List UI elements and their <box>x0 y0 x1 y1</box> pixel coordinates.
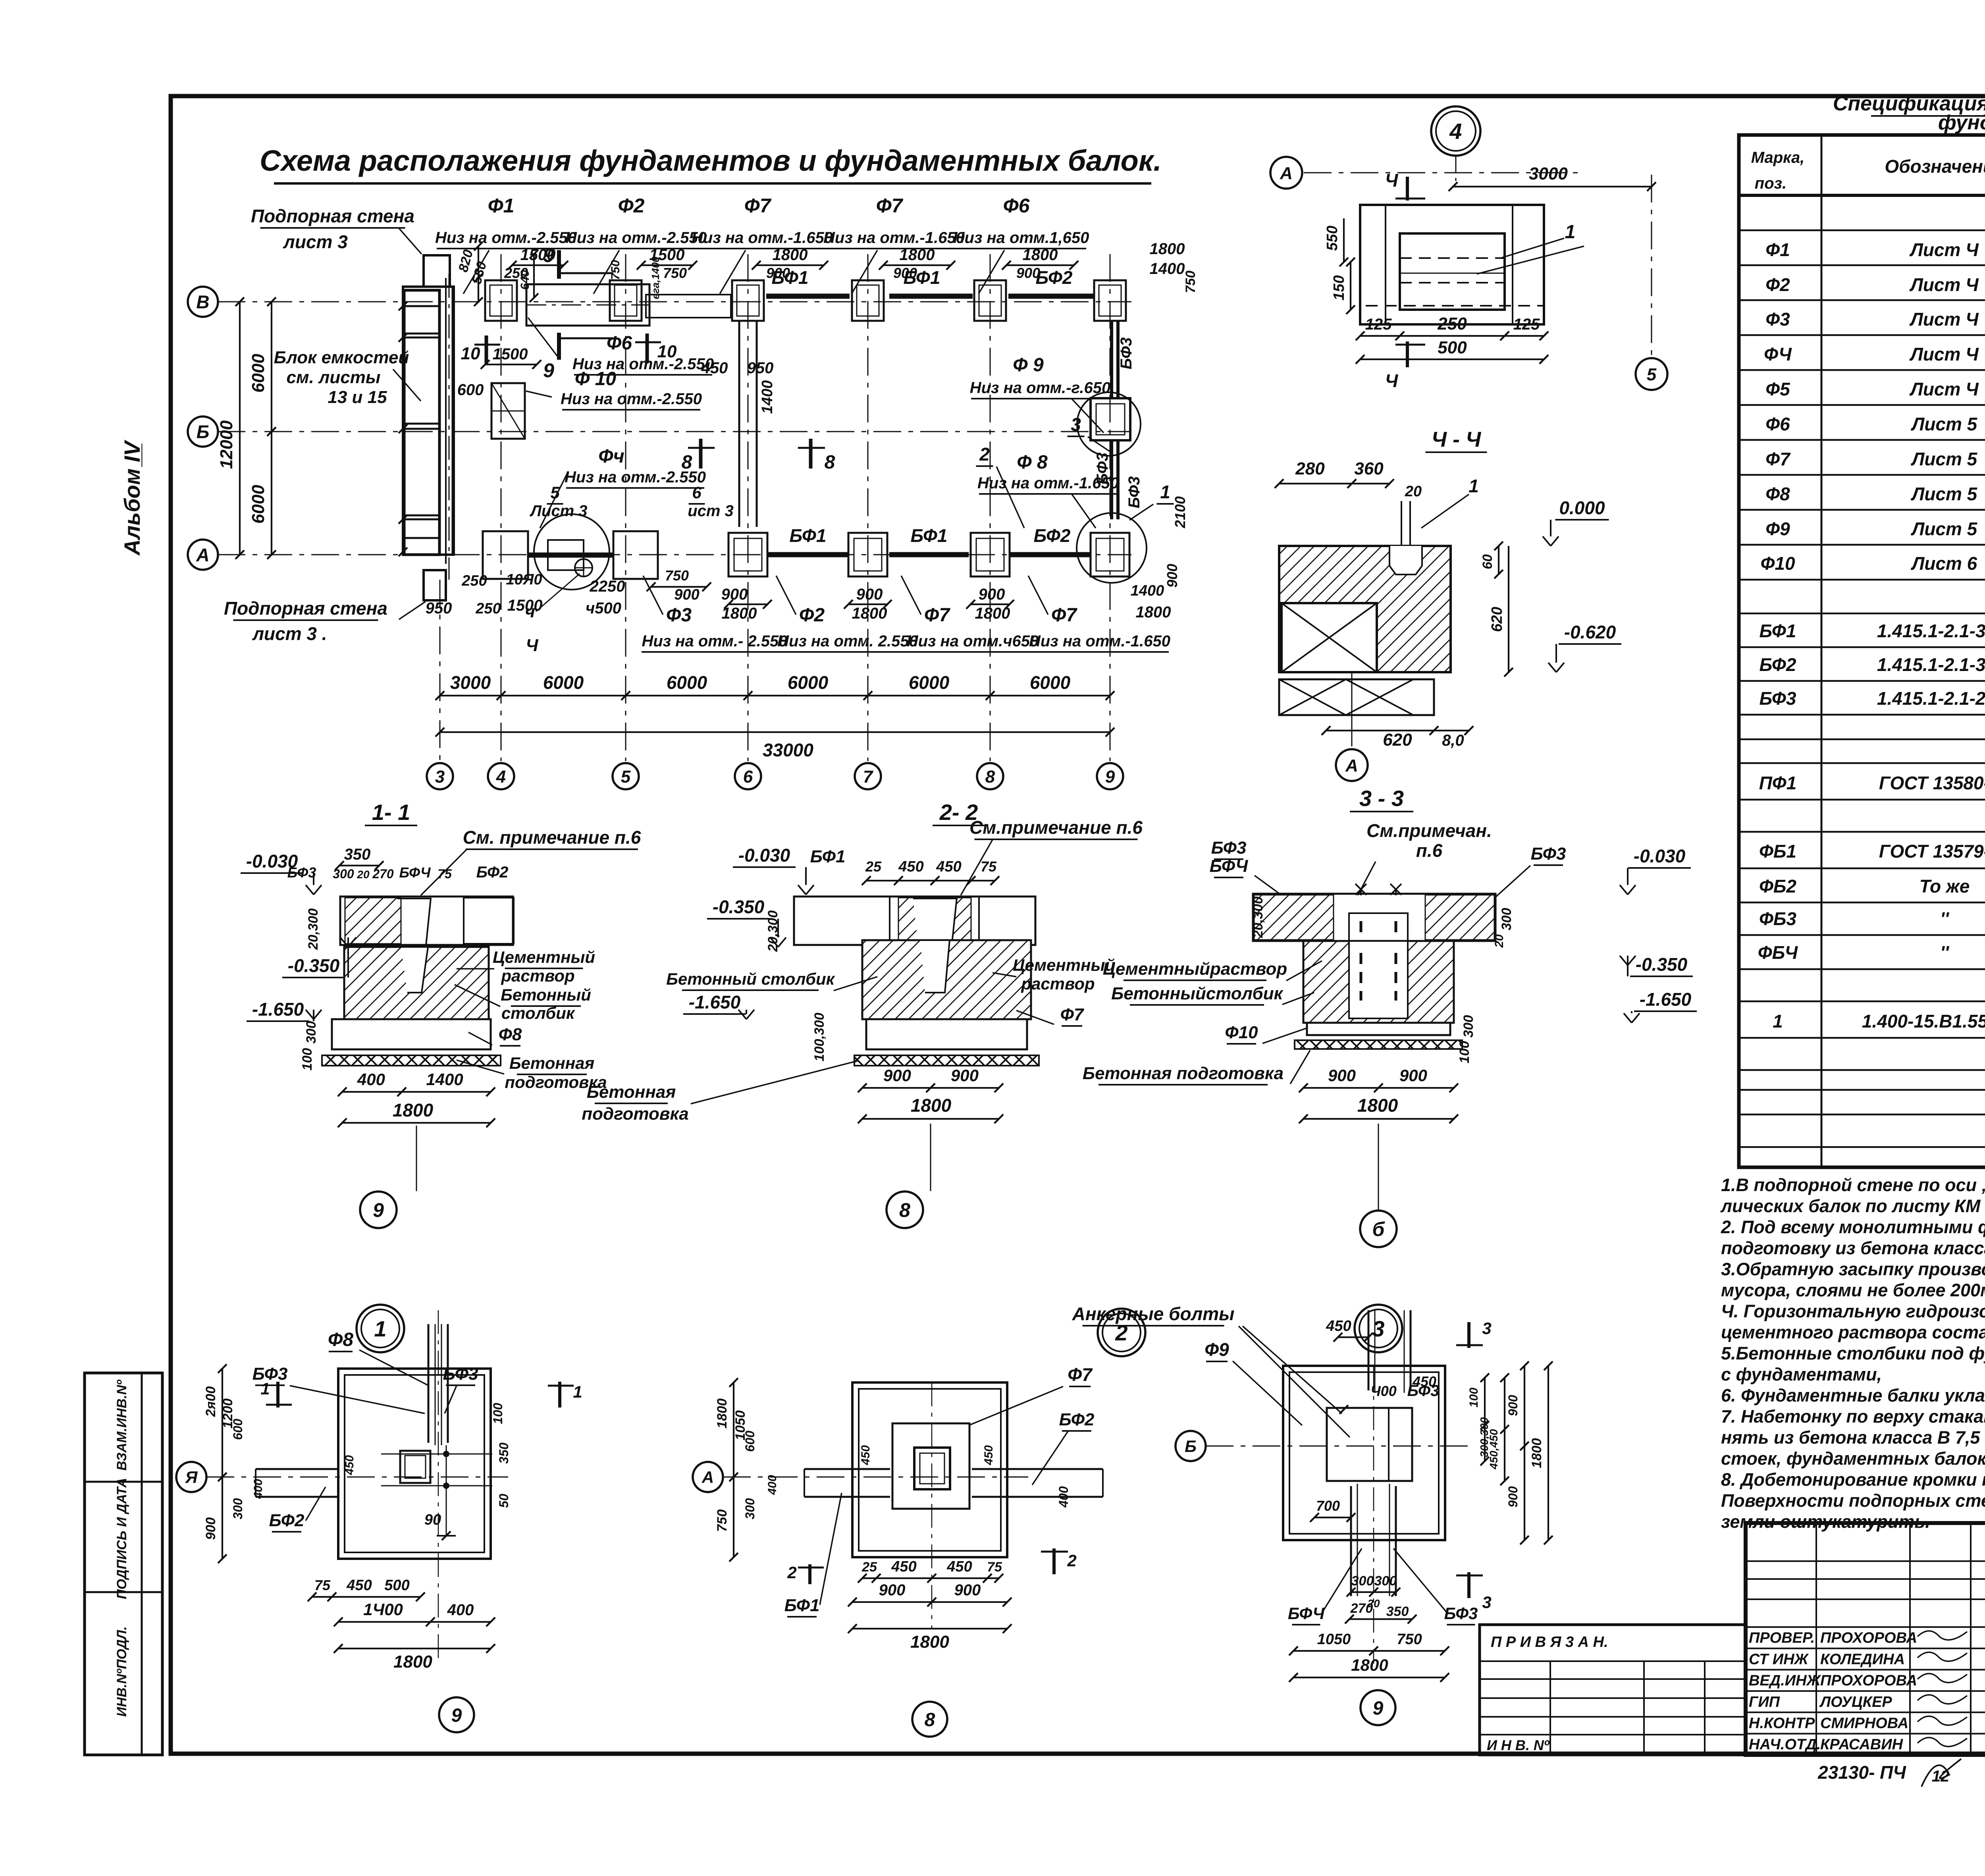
detail4 dim 150 <box>1350 262 1351 310</box>
svg-text:1800: 1800 <box>1357 1095 1398 1116</box>
section 3-3 grid circle 6 <box>1360 1211 1397 1247</box>
svg-text:10: 10 <box>461 344 480 363</box>
svg-text:1400: 1400 <box>1131 582 1164 599</box>
svg-text:ега,1400: ега,1400 <box>649 256 661 299</box>
svg-text:270: 270 <box>372 867 394 881</box>
plan bottom dim row 33000 <box>440 731 1110 733</box>
svg-text:1800: 1800 <box>1136 603 1171 621</box>
svg-text:Цементный: Цементный <box>1013 956 1115 974</box>
svg-text:Бетонная: Бетонная <box>587 1082 676 1102</box>
svg-text:20,300: 20,300 <box>1251 897 1266 938</box>
svg-text:6: 6 <box>692 483 701 502</box>
svg-text:100: 100 <box>491 1403 505 1424</box>
svg-text:ист 3: ист 3 <box>688 502 734 520</box>
svg-text:-0.030: -0.030 <box>246 851 298 871</box>
detail9R outer square <box>1283 1366 1445 1540</box>
svg-text:Ф7: Ф7 <box>744 195 772 217</box>
svg-text:1400: 1400 <box>759 380 776 414</box>
detail9R section marker 3 bottom <box>1467 1572 1470 1598</box>
svg-text:БФ3: БФ3 <box>252 1364 288 1384</box>
svg-text:ПОДПИСЬ И ДАТА: ПОДПИСЬ И ДАТА <box>114 1478 129 1599</box>
big node circle grid9 axis B <box>1077 392 1141 456</box>
svg-text:Низ на отм.-г.650: Низ на отм.-г.650 <box>970 379 1111 397</box>
svg-text:Низ на отм.-2.550: Низ на отм.-2.550 <box>561 390 702 408</box>
svg-text:3: 3 <box>1482 1319 1491 1338</box>
svg-text:Ч: Ч <box>1385 370 1399 391</box>
grid circle 6 <box>735 763 761 789</box>
grid circle 5 <box>613 763 639 789</box>
section 1-1 dims below <box>342 1091 491 1093</box>
svg-text:БФ3: БФ3 <box>1407 1382 1440 1400</box>
svg-text:900: 900 <box>721 586 748 603</box>
svg-text:А: А <box>1345 756 1358 775</box>
svg-text:750: 750 <box>609 260 622 280</box>
svg-text:БФ3: БФ3 <box>1118 337 1135 370</box>
svg-text:ГИП: ГИП <box>1749 1694 1780 1710</box>
svg-text:Обозначение: Обозначение <box>1885 156 1985 177</box>
node circle 3 <box>1355 1305 1402 1352</box>
detail9R axis circle B <box>1176 1431 1206 1461</box>
svg-text:1: 1 <box>1773 1011 1783 1032</box>
svg-text:100: 100 <box>1457 1041 1472 1064</box>
svg-text:250: 250 <box>461 573 487 589</box>
section marker 10 left <box>485 335 488 365</box>
section 3-3 foundation <box>1303 941 1454 1023</box>
svg-text:400: 400 <box>357 1070 385 1089</box>
svg-text:Лист 6: Лист 6 <box>1911 553 1977 574</box>
foundation bottom row at grid x=1884 <box>728 533 767 576</box>
svg-text:900: 900 <box>1328 1066 1356 1085</box>
svg-text:1500: 1500 <box>507 597 543 614</box>
svg-text:4: 4 <box>496 767 506 787</box>
svg-text:Ф7: Ф7 <box>1765 449 1791 469</box>
top row monolithic strip 5-6 <box>646 295 731 318</box>
svg-text:3: 3 <box>1071 414 1081 435</box>
svg-text:1800: 1800 <box>910 1632 949 1652</box>
svg-text:8: 8 <box>825 452 835 473</box>
section marker 9 upper <box>557 250 561 279</box>
svg-text:лических балок по листу КМ 5.: лических балок по листу КМ 5. <box>1720 1196 1985 1216</box>
section 4-4 leader 1 <box>1421 494 1469 528</box>
big node circle right <box>1077 513 1147 583</box>
svg-text:Ф7: Ф7 <box>1068 1364 1093 1385</box>
svg-text:50: 50 <box>497 1494 511 1508</box>
svg-text:900: 900 <box>1016 265 1040 281</box>
svg-text:с фундаментами,: с фундаментами, <box>1721 1364 1882 1384</box>
svg-text:СТ ИНЖ: СТ ИНЖ <box>1749 1651 1809 1668</box>
beam BF2 top 8-9 <box>1008 294 1095 299</box>
detail9L inner square <box>400 1451 430 1483</box>
retaining wall bottom square <box>424 570 446 600</box>
detail4 node4 axis drop <box>1455 156 1457 187</box>
section 4-4 axis drop <box>1351 672 1353 746</box>
svg-text:ФЧ: ФЧ <box>1764 344 1792 364</box>
section 2-2 axis drop <box>930 1124 931 1191</box>
svg-text:Лист 5: Лист 5 <box>1911 414 1978 434</box>
svg-text:Низ на отм.1,650: Низ на отм.1,650 <box>953 229 1089 247</box>
detail4 axis line <box>1304 172 1584 174</box>
svg-text:20: 20 <box>357 868 370 881</box>
section 4-4 axis circle A <box>1336 749 1368 781</box>
detail8 left dim chain <box>733 1382 734 1557</box>
svg-text:450: 450 <box>859 1445 872 1465</box>
svg-text:Ч: Ч <box>526 636 538 655</box>
detail9R grid circle 9 <box>1361 1690 1395 1725</box>
svg-text:20: 20 <box>1405 483 1422 500</box>
detail9R section marker 3 top <box>1467 1322 1470 1348</box>
svg-text:Ф10: Ф10 <box>1225 1023 1258 1042</box>
svg-text:Ф2: Ф2 <box>618 195 645 217</box>
svg-text:5: 5 <box>621 767 631 787</box>
svg-text:900: 900 <box>883 1066 911 1085</box>
section 1-1 grid circle 9 <box>360 1192 397 1228</box>
svg-text:20,300: 20,300 <box>765 910 781 952</box>
svg-text:Блок емкостей: Блок емкостей <box>274 348 409 367</box>
detail8 dims below <box>862 1577 999 1579</box>
svg-text:Ф 10: Ф 10 <box>575 368 617 389</box>
svg-text:П Р И В Я 3 А Н.: П Р И В Я 3 А Н. <box>1491 1634 1608 1650</box>
svg-text:1800: 1800 <box>715 1398 730 1429</box>
svg-text:Бетонныйстолбик: Бетонныйстолбик <box>1111 984 1284 1003</box>
svg-text:БФ2: БФ2 <box>1036 267 1073 288</box>
svg-text:900: 900 <box>1506 1395 1520 1416</box>
svg-text:450: 450 <box>936 858 961 875</box>
svg-text:БФ3: БФ3 <box>443 1364 478 1384</box>
svg-text:750: 750 <box>663 265 687 281</box>
svg-text:1.415.1-2.1-3-62: 1.415.1-2.1-3-62 <box>1877 654 1985 675</box>
svg-text:1.415.1-2.1-3-51: 1.415.1-2.1-3-51 <box>1877 621 1985 641</box>
svg-text:ФБ3: ФБ3 <box>1759 908 1796 929</box>
BF3 vertical beam at grid9 upper <box>1110 321 1113 398</box>
svg-text:6: 6 <box>743 767 753 787</box>
svg-text:6000: 6000 <box>667 672 707 693</box>
grid line 9 <box>1110 254 1111 761</box>
svg-text:450,450: 450,450 <box>1488 1429 1500 1470</box>
svg-text:1.415.1-2.1-2-54: 1.415.1-2.1-2-54 <box>1877 688 1985 709</box>
svg-text:-0.350: -0.350 <box>1636 954 1688 975</box>
node circle 1 <box>357 1305 404 1352</box>
detail8 right beam stub <box>972 1468 1103 1470</box>
svg-text:См. примечание п.6: См. примечание п.6 <box>463 827 641 848</box>
svg-text:8: 8 <box>985 767 995 787</box>
plan bottom dim row 3000/6000 <box>440 695 1110 696</box>
detail4 leader 1 <box>1501 238 1564 258</box>
svg-text:20: 20 <box>1493 934 1506 948</box>
svg-text:Лист Ч: Лист Ч <box>1909 309 1979 330</box>
svg-text:-0.350: -0.350 <box>288 955 340 976</box>
svg-text:Я: Я <box>185 1468 198 1487</box>
svg-text:1050: 1050 <box>1317 1631 1351 1648</box>
foundation bottom row at grid x=2186 <box>848 533 887 576</box>
section 1-1 axis drop <box>416 1126 417 1191</box>
svg-text:3: 3 <box>1372 1316 1384 1341</box>
svg-text:1: 1 <box>1565 222 1576 243</box>
detail4 dim 550 <box>1343 218 1345 262</box>
svg-text:8. Добетонирование кромки подп: 8. Добетонирование кромки подпорных стен… <box>1721 1469 1985 1490</box>
section 2-2 grid circle 8 <box>887 1192 923 1228</box>
detail8 left beam stub <box>804 1468 890 1470</box>
svg-text:Низ на отм.ч650: Низ на отм.ч650 <box>907 632 1039 650</box>
node circle 2 <box>1098 1309 1145 1356</box>
svg-text:1800: 1800 <box>911 1095 952 1116</box>
svg-text:Ф6: Ф6 <box>1003 195 1030 217</box>
svg-text:БФ1: БФ1 <box>784 1596 820 1615</box>
foundation at grid9 axis B <box>1091 398 1130 440</box>
svg-text:Б: Б <box>1185 1437 1197 1456</box>
svg-text:Ф8: Ф8 <box>1765 484 1790 504</box>
section 4-4 dims below <box>1326 730 1469 731</box>
svg-text:2: 2 <box>1067 1551 1076 1570</box>
svg-text:6000: 6000 <box>249 354 268 393</box>
svg-text:Бетонный столбик: Бетонный столбик <box>666 970 835 988</box>
detail8 axis circle <box>693 1462 723 1492</box>
svg-text:Бетонная: Бетонная <box>509 1054 594 1072</box>
svg-text:Ч. Горизонтальную гидроизоляци: Ч. Горизонтальную гидроизоляцию стен вып… <box>1721 1301 1985 1321</box>
svg-text:Ф7: Ф7 <box>924 605 950 626</box>
svg-text:1500: 1500 <box>493 345 528 363</box>
svg-text:8: 8 <box>925 1709 935 1730</box>
svg-text:8: 8 <box>899 1199 910 1221</box>
svg-text:10Я0: 10Я0 <box>506 571 542 588</box>
svg-text:подготовка: подготовка <box>582 1104 689 1124</box>
svg-text:БФ1: БФ1 <box>810 847 846 866</box>
svg-text:6. Фундаментные балки укладыва: 6. Фундаментные балки укладываются на св… <box>1721 1385 1985 1406</box>
svg-text:Цементный: Цементный <box>493 948 595 966</box>
section 2-2 beams row <box>794 897 1035 945</box>
svg-text:750: 750 <box>1183 271 1198 293</box>
svg-text:900: 900 <box>954 1581 981 1599</box>
section 2-2 podgotovka <box>854 1055 1039 1066</box>
svg-text:Бетонный: Бетонный <box>501 985 591 1004</box>
title block outer <box>1746 1523 1985 1755</box>
section 3-3 slab <box>1307 1023 1450 1035</box>
svg-text:5: 5 <box>550 483 560 502</box>
svg-text:2: 2 <box>979 444 990 465</box>
svg-text:450: 450 <box>946 1558 972 1575</box>
beam BF2 bottom 8-9 <box>1010 552 1090 557</box>
svg-text:ФБ1: ФБ1 <box>1759 841 1796 862</box>
svg-text:Ф7: Ф7 <box>1060 1005 1085 1024</box>
retaining wall outline <box>403 287 454 555</box>
svg-text:900: 900 <box>951 1066 979 1085</box>
node circle 4 <box>1431 106 1480 156</box>
svg-text:ГОСТ 13580-85: ГОСТ 13580-85 <box>1879 773 1985 793</box>
svg-text:23130- ПЧ: 23130- ПЧ <box>1817 1762 1906 1783</box>
section 2-2 dims below <box>862 1087 999 1089</box>
svg-text:20,300: 20,300 <box>306 908 321 950</box>
svg-text:Марка,: Марка, <box>1751 149 1805 166</box>
svg-text:Лист Ч: Лист Ч <box>1909 274 1979 295</box>
detail9L section marker 1 left <box>276 1382 279 1407</box>
svg-text:6000: 6000 <box>788 672 829 693</box>
svg-text:600: 600 <box>231 1419 245 1440</box>
foundation bottom row at grid x=2796 <box>1091 533 1129 576</box>
svg-text:1400: 1400 <box>1150 260 1185 278</box>
section 4-4 big hatched block <box>1279 546 1451 672</box>
svg-text:620: 620 <box>1489 607 1505 632</box>
svg-text:'': '' <box>1940 908 1950 929</box>
svg-text:БФ3: БФ3 <box>1531 844 1566 864</box>
svg-text:Низ на отм.-2.550: Низ на отм.-2.550 <box>565 469 706 486</box>
svg-text:620: 620 <box>1383 730 1412 750</box>
svg-text:См.примечание п.6: См.примечание п.6 <box>969 817 1143 838</box>
foundation top row at grid x=2494 <box>974 280 1006 321</box>
svg-text:2я00: 2я00 <box>203 1386 218 1417</box>
svg-text:ВЕД.ИНЖ: ВЕД.ИНЖ <box>1749 1672 1821 1689</box>
svg-text:1Ч00: 1Ч00 <box>363 1600 403 1619</box>
big node circle 5 <box>534 514 609 590</box>
anchor mark 4 <box>575 559 592 576</box>
top row monolithic strip 4-5 <box>526 284 649 326</box>
svg-text:400: 400 <box>766 1475 779 1495</box>
svg-text:75: 75 <box>987 1560 1002 1575</box>
detail4 plan outer rect <box>1360 205 1544 324</box>
svg-text:9: 9 <box>1373 1698 1384 1719</box>
svg-text:75: 75 <box>437 867 452 881</box>
svg-text:мусора, слоями не более 200мм: мусора, слоями не более 200мм с уплотнен… <box>1721 1280 1985 1300</box>
detail9L axis circle <box>176 1462 206 1492</box>
svg-text:Ф 9: Ф 9 <box>1013 355 1044 376</box>
svg-text:750: 750 <box>665 567 689 584</box>
svg-text:Анкерные болты: Анкерные болты <box>1072 1303 1235 1324</box>
grid line 4 <box>501 254 502 761</box>
beam BF1 bottom 7-8 <box>889 552 969 557</box>
foundation top row at grid x=2186 <box>852 280 884 321</box>
detail8 outer square <box>852 1382 1007 1557</box>
section 2-2 foundation <box>862 940 1031 1019</box>
left dim 6000 lower <box>271 432 272 555</box>
svg-text:Н.КОНТР: Н.КОНТР <box>1749 1715 1815 1732</box>
beam BF1 top 7-8 <box>889 294 973 299</box>
svg-text:6000: 6000 <box>909 672 950 693</box>
svg-text:лист 3: лист 3 <box>283 231 348 252</box>
svg-text:подготовку из бетона класса В3: подготовку из бетона класса В3.5 толщино… <box>1721 1238 1985 1258</box>
title block upper small grid <box>1746 1560 1985 1562</box>
left dim 12000 <box>239 302 241 555</box>
svg-text:1.В подпорной стене по оси „6": 1.В подпорной стене по оси „6"предусмотр… <box>1721 1175 1985 1195</box>
svg-text:НАЧ.ОТД.: НАЧ.ОТД. <box>1749 1736 1821 1753</box>
svg-text:Ф6: Ф6 <box>1765 414 1790 434</box>
section 3-3 beams row <box>1253 894 1495 941</box>
detail8 marker 2 right <box>1052 1548 1056 1574</box>
svg-text:Подпорная стена: Подпорная стена <box>224 598 387 619</box>
section 4-4 dims above <box>1279 483 1389 484</box>
svg-text:9: 9 <box>1105 767 1115 787</box>
axis line A <box>218 554 1131 555</box>
svg-text:Ф6: Ф6 <box>607 333 632 354</box>
svg-text:БФ3: БФ3 <box>1094 453 1111 485</box>
svg-text:1: 1 <box>260 1379 270 1398</box>
svg-text:фундаментных балок.: фундаментных балок. <box>1938 111 1985 134</box>
svg-text:9: 9 <box>451 1705 462 1726</box>
svg-text:100: 100 <box>1467 1388 1480 1407</box>
svg-text:Ф 8: Ф 8 <box>1017 452 1048 473</box>
detail9L anchor bolts <box>443 1451 449 1457</box>
svg-text:см. листы: см. листы <box>287 368 381 387</box>
svg-text:раствор: раствор <box>1021 974 1095 993</box>
svg-text:КРАСАВИН: КРАСАВИН <box>1820 1736 1904 1753</box>
svg-text:Ф2: Ф2 <box>799 605 825 626</box>
svg-text:Низ на отм.-2.550: Низ на отм.-2.550 <box>435 229 576 247</box>
svg-text:300: 300 <box>1351 1573 1374 1589</box>
grid6 vertical channel <box>738 321 740 527</box>
svg-text:600: 600 <box>457 381 484 399</box>
svg-text:13 и 15: 13 и 15 <box>328 388 387 407</box>
svg-text:Ф3: Ф3 <box>1765 309 1790 330</box>
section 3-3 dims below <box>1303 1087 1454 1089</box>
svg-text:А: А <box>196 545 209 565</box>
svg-text:100,300: 100,300 <box>812 1012 827 1061</box>
svg-text:6000: 6000 <box>543 672 584 693</box>
detail9L left dim chain <box>222 1369 223 1559</box>
svg-text:Ф9: Ф9 <box>1765 519 1790 539</box>
svg-text:БФ1: БФ1 <box>1760 621 1796 641</box>
section 1-1 foundation <box>344 947 489 1019</box>
detail9L outer square <box>338 1369 491 1559</box>
svg-text:900: 900 <box>879 1581 906 1599</box>
svg-text:300: 300 <box>743 1498 757 1519</box>
svg-text:Лист Ч: Лист Ч <box>1909 239 1979 260</box>
foundation bottom row at grid x=2494 <box>971 533 1010 576</box>
svg-text:БФ3: БФ3 <box>1444 1604 1478 1623</box>
svg-text:350: 350 <box>497 1442 511 1464</box>
svg-text:1800: 1800 <box>722 605 757 622</box>
section marker 8 left <box>699 439 703 469</box>
section 1-1 beams row <box>340 897 513 945</box>
detail9R dim 700 <box>1314 1517 1351 1518</box>
svg-text:400: 400 <box>447 1601 474 1619</box>
detail4 dim 3000 <box>1453 186 1652 187</box>
svg-text:Ч: Ч <box>1385 170 1399 191</box>
section 4-4 anchor bolt <box>1401 501 1402 575</box>
svg-text:ПФ1: ПФ1 <box>1759 773 1797 793</box>
svg-text:стоек, фундаментных балок.: стоек, фундаментных балок. <box>1721 1448 1985 1469</box>
svg-text:Фч: Фч <box>598 446 624 467</box>
svg-text:300: 300 <box>231 1498 245 1519</box>
svg-text:250: 250 <box>475 600 501 617</box>
section 1-1 podgotovka <box>322 1055 501 1066</box>
section 3-3 anchor bolts <box>1360 889 1362 895</box>
detail8 grid circle 8 <box>912 1702 947 1737</box>
svg-text:450: 450 <box>891 1558 916 1575</box>
svg-text:поз.: поз. <box>1755 175 1786 192</box>
svg-text:900: 900 <box>1164 564 1180 588</box>
section 4-4 dim 60 <box>1498 546 1499 574</box>
svg-text:Б: Б <box>197 422 210 442</box>
detail4 grid5 axis drop <box>1651 175 1652 355</box>
detail9L left beam stub <box>256 1468 338 1470</box>
svg-text:Ф8: Ф8 <box>328 1329 353 1350</box>
svg-text:900: 900 <box>1506 1486 1520 1508</box>
svg-text:1800: 1800 <box>1351 1656 1388 1674</box>
svg-text:900: 900 <box>203 1517 218 1540</box>
svg-text:25: 25 <box>861 1560 877 1575</box>
svg-text:700: 700 <box>1316 1498 1340 1514</box>
detail9R right dim chains <box>1484 1378 1486 1461</box>
svg-text:150: 150 <box>1331 275 1347 300</box>
svg-text:Ф9: Ф9 <box>1204 1339 1229 1360</box>
svg-text:Поверхности подпорных стен выш: Поверхности подпорных стен выше планиров… <box>1721 1490 1985 1511</box>
svg-text:Лист 5: Лист 5 <box>1911 519 1978 539</box>
svg-text:Ф1: Ф1 <box>488 195 515 217</box>
svg-text:100: 100 <box>300 1048 315 1071</box>
svg-text:Ч - Ч: Ч - Ч <box>1432 428 1482 451</box>
detail9R dims below <box>1351 1591 1396 1593</box>
svg-text:БФ2: БФ2 <box>476 864 509 881</box>
svg-text:9: 9 <box>373 1199 384 1221</box>
svg-text:Лист 5: Лист 5 <box>1911 484 1978 504</box>
grid line 7 <box>867 254 869 761</box>
